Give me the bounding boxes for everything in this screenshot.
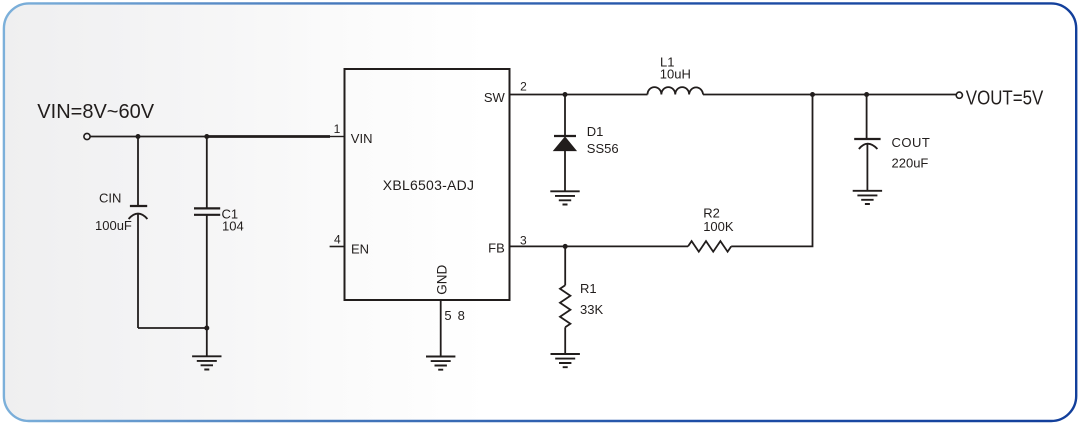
svg-text:XBL6503-ADJ: XBL6503-ADJ xyxy=(383,177,474,193)
label D1 xyxy=(587,124,604,139)
pin label VIN xyxy=(351,131,373,146)
svg-text:10uH: 10uH xyxy=(660,67,691,82)
inductor L1 xyxy=(648,87,704,94)
wire L1 to VOUT xyxy=(703,94,956,96)
pin number 4 xyxy=(334,232,341,246)
svg-text:COUT: COUT xyxy=(892,135,931,150)
label 220uF xyxy=(892,155,929,170)
svg-text:8: 8 xyxy=(458,308,465,323)
label L1 xyxy=(660,55,674,70)
ground R1 xyxy=(551,354,580,367)
node CIN junction xyxy=(136,134,141,139)
wire to input ground xyxy=(206,328,208,356)
svg-text:5: 5 xyxy=(444,308,451,323)
ground IC xyxy=(426,357,455,370)
svg-text:100K: 100K xyxy=(703,219,734,234)
svg-text:VIN=8V~60V: VIN=8V~60V xyxy=(37,101,154,123)
node D1 junction xyxy=(563,92,568,97)
wire FB net xyxy=(510,245,689,247)
diode D1 SS56 xyxy=(554,95,576,192)
pin label GND xyxy=(435,264,450,294)
label R1 xyxy=(580,281,597,296)
label 33K xyxy=(580,302,603,317)
pin label SW xyxy=(484,90,506,105)
label COUT xyxy=(892,135,931,150)
node COUT junction xyxy=(864,92,869,97)
label 10uH xyxy=(660,67,691,82)
svg-text:VIN: VIN xyxy=(351,131,373,146)
label SS56 xyxy=(587,141,619,156)
node R1 junction xyxy=(563,244,568,249)
pin label FB xyxy=(488,241,505,256)
capacitor C1 xyxy=(194,137,220,329)
node feedback junction xyxy=(810,92,815,97)
pin number 2 xyxy=(520,80,527,94)
output terminal xyxy=(956,92,962,98)
pin numbers 5 8 xyxy=(444,308,464,323)
wire input ground rail xyxy=(138,327,207,329)
pin label EN xyxy=(351,241,369,256)
wire VIN rail thin xyxy=(90,136,207,138)
resistor R2 xyxy=(688,241,731,252)
svg-text:R1: R1 xyxy=(580,281,597,296)
svg-text:CIN: CIN xyxy=(99,191,121,206)
svg-text:220uF: 220uF xyxy=(892,155,929,170)
capacitor CIN xyxy=(129,137,148,329)
ground input xyxy=(192,356,221,369)
svg-text:EN: EN xyxy=(351,241,369,256)
label 100K xyxy=(703,219,734,234)
input terminal xyxy=(84,133,90,139)
IC ground stub xyxy=(440,300,442,357)
pin 4 EN stub xyxy=(330,246,345,248)
label 100uF xyxy=(95,218,132,233)
label 104 xyxy=(222,218,244,233)
label VOUT=5V xyxy=(966,86,1044,109)
svg-text:100uF: 100uF xyxy=(95,218,132,233)
op-amp U1 XBL6503-ADJ box xyxy=(345,69,510,300)
svg-text:2: 2 xyxy=(520,80,527,94)
label XBL6503-ADJ xyxy=(383,177,474,193)
pin number 1 xyxy=(334,122,341,136)
label C1 xyxy=(222,206,239,221)
svg-text:1: 1 xyxy=(334,122,341,136)
label VIN=8V~60V xyxy=(37,101,154,123)
wire SW net xyxy=(510,94,648,96)
wire R2 to feedback riser xyxy=(731,95,812,247)
svg-text:GND: GND xyxy=(435,264,450,294)
svg-text:SS56: SS56 xyxy=(587,141,619,156)
capacitor COUT xyxy=(854,95,880,191)
node input ground junction xyxy=(204,326,209,331)
svg-text:33K: 33K xyxy=(580,302,603,317)
resistor R1 xyxy=(560,246,570,354)
svg-text:D1: D1 xyxy=(587,124,604,139)
svg-text:VOUT=5V: VOUT=5V xyxy=(966,86,1044,109)
svg-text:FB: FB xyxy=(488,241,505,256)
svg-text:4: 4 xyxy=(334,232,341,246)
wire VIN rail bold segment xyxy=(207,135,330,138)
ground D1 xyxy=(550,191,579,204)
ground COUT xyxy=(853,191,882,204)
pin number 3 xyxy=(520,234,527,248)
svg-text:104: 104 xyxy=(222,218,244,233)
label CIN xyxy=(99,191,121,206)
svg-text:SW: SW xyxy=(484,90,506,105)
label R2 xyxy=(703,205,720,220)
pin 1 stub xyxy=(330,136,345,138)
node C1 junction xyxy=(204,134,209,139)
